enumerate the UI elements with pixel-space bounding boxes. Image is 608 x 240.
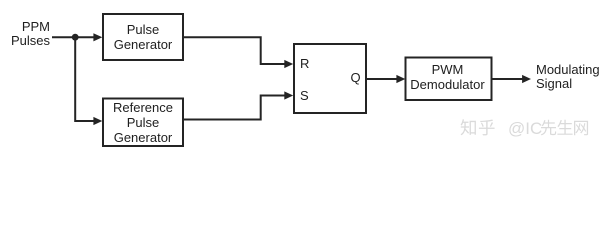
arrowhead into Pulse Generator — [93, 33, 102, 41]
label Pulse Generator — [103, 14, 183, 60]
pin label R — [300, 57, 309, 70]
block PWM Demodulator — [406, 58, 492, 101]
wire Q output to PWM Demodulator — [366, 78, 397, 80]
arrowhead output — [522, 75, 531, 83]
SR latch U1 — [294, 44, 366, 113]
wire Reference Pulse Generator to S input — [183, 96, 285, 120]
node label PPM Pulses input — [8, 20, 50, 47]
wire diagram svg — [0, 0, 608, 154]
node label Modulating Signal output — [536, 63, 600, 91]
wire PPM input — [52, 36, 94, 38]
arrowhead into S pin — [284, 91, 293, 99]
svg-text:@IC: @IC — [508, 119, 542, 138]
watermark 知乎 @IC先生网 — [461, 119, 588, 138]
wire junction to Reference Pulse Generator — [75, 37, 94, 121]
pin label S — [300, 89, 309, 102]
node input junction — [72, 34, 79, 41]
pin label Q — [351, 71, 361, 84]
arrowhead into PWM Demodulator — [396, 75, 405, 83]
block Pulse Generator — [103, 14, 183, 60]
label Reference Pulse Generator — [103, 99, 183, 147]
block Reference Pulse Generator — [103, 99, 183, 147]
wire PWM Demodulator output — [492, 78, 524, 80]
arrowhead into Reference Pulse Generator — [93, 117, 102, 125]
label PWM Demodulator — [405, 56, 491, 99]
arrowhead into R pin — [284, 60, 293, 68]
wire Pulse Generator to R input — [183, 37, 285, 64]
